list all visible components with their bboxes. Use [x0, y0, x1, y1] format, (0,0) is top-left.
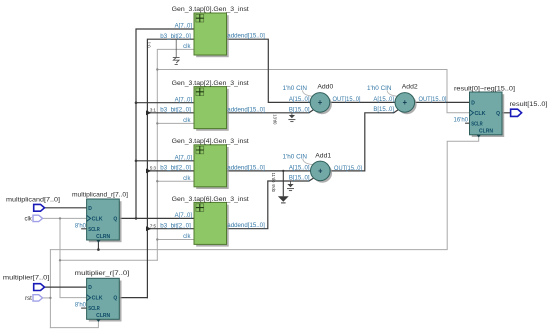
wire rst to multiplier_r CLRN: [50, 322, 98, 328]
svg-text:A[15..0]: A[15..0]: [289, 97, 310, 103]
wire clk to tap4: [157, 180, 194, 182]
wire clk to tap2: [157, 122, 194, 124]
wire rst vertical: [49, 250, 51, 328]
block Gen_3.tap[2].Gen_3_inst: [194, 87, 229, 131]
svg-text:SCLR: SCLR: [471, 121, 483, 127]
svg-text:result[0]~reg[15..0]: result[0]~reg[15..0]: [454, 85, 515, 92]
svg-text:D: D: [471, 101, 475, 107]
svg-text:multiplier_r[7..0]: multiplier_r[7..0]: [75, 270, 130, 277]
wire b3 to tap4: [147, 170, 194, 172]
node clk tap6 branch: [156, 238, 158, 240]
svg-text:CLRN: CLRN: [96, 313, 110, 319]
node Add1 A ground junction: [282, 170, 284, 172]
svg-text:Gen_3.tap[0].Gen_3_inst: Gen_3.tap[0].Gen_3_inst: [172, 6, 249, 13]
svg-text:1'h0 CIN: 1'h0 CIN: [283, 154, 308, 160]
wire CIN elbow Add1: [303, 159, 314, 165]
wire multiplicand_r Q / A bus to tap6 A: [119, 217, 194, 219]
wire multiplicand port to D: [45, 207, 87, 209]
svg-text:Add0: Add0: [317, 84, 333, 91]
port result[15..0]: [511, 109, 522, 116]
wire rst port stub: [43, 297, 51, 299]
svg-text:clk: clk: [183, 176, 191, 182]
node clk port branch: [59, 217, 61, 219]
wire rst to multiplicand_r CLRN: [97, 242, 99, 250]
svg-text:A[7..0]: A[7..0]: [175, 24, 193, 30]
wire b3 to tap6: [147, 228, 194, 230]
port rst: [33, 295, 43, 301]
svg-text:b3_bit[2..0]: b3_bit[2..0]: [160, 166, 191, 172]
register multiplicand_r[7..0]: [87, 199, 122, 243]
svg-text:A[7..0]: A[7..0]: [175, 155, 193, 161]
svg-text:addend[15..0]: addend[15..0]: [227, 107, 265, 113]
svg-text:clk: clk: [183, 44, 191, 50]
wire multiplier_r Q to b3 bus: [119, 297, 147, 299]
svg-text:OUT[15..0]: OUT[15..0]: [334, 166, 362, 172]
labels Add0: [283, 86, 361, 114]
svg-text:11'd0: 11'd0: [271, 173, 276, 183]
svg-text:8'h0: 8'h0: [75, 303, 87, 309]
wire Add0 OUT to Add2 A: [330, 101, 395, 103]
svg-text:SCLR: SCLR: [88, 306, 100, 312]
svg-text:8'h0: 8'h0: [75, 223, 87, 229]
block Gen_3.tap[0].Gen_3_inst: [194, 13, 229, 57]
wire CIN elbow Add2: [387, 91, 398, 97]
wire clk port to multiplicand_r CLK: [43, 217, 87, 219]
ground below tap0 b3_bit: [173, 39, 180, 64]
block Gen_3.tap[4].Gen_3_inst: [194, 145, 229, 189]
svg-text:A[7..0]: A[7..0]: [175, 213, 193, 219]
ripper b3 tap6: [146, 226, 151, 231]
svg-text:Q: Q: [496, 111, 500, 117]
svg-text:5:3: 5:3: [150, 166, 157, 171]
svg-text:7:5: 7:5: [150, 223, 157, 228]
wire Add1 OUT to Add2 B: [330, 110, 398, 171]
svg-text:b3_bit[2..0]: b3_bit[2..0]: [160, 34, 191, 40]
svg-text:addend[15..0]: addend[15..0]: [227, 223, 265, 229]
svg-text:1:0: 1:0: [147, 42, 152, 48]
node clk tap4 branch: [156, 180, 158, 182]
labels Add1: [283, 154, 363, 181]
node A bus tap6: [135, 217, 138, 220]
svg-text:CLK: CLK: [475, 111, 486, 117]
node rst clrn junction: [97, 248, 100, 251]
wire multiplier port to D: [45, 286, 87, 288]
ground on Add1 A wire (large): [278, 171, 289, 203]
svg-text:result[15..0]: result[15..0]: [510, 102, 548, 108]
node A bus tap2: [135, 101, 138, 104]
svg-text:b3_bit[2..0]: b3_bit[2..0]: [160, 108, 191, 114]
register multiplier_r[7..0]: [87, 278, 122, 322]
svg-text:16'h0: 16'h0: [454, 117, 469, 123]
svg-text:CLK: CLK: [92, 296, 103, 302]
op Add0: [310, 93, 332, 115]
wire result reg Q to output port: [502, 112, 511, 114]
svg-text:addend[15..0]: addend[15..0]: [227, 165, 265, 171]
svg-text:OUT[15..0]: OUT[15..0]: [333, 97, 361, 103]
wire rst to result reg CLRN: [50, 137, 478, 250]
wire tap6 addend to Add1 B: [227, 178, 314, 229]
svg-text:1'h0 CIN: 1'h0 CIN: [283, 86, 308, 92]
wire CIN elbow Add0: [303, 91, 314, 97]
ground on Add1 B wire: [287, 181, 294, 191]
svg-text:multiplicand_r[7..0]: multiplicand_r[7..0]: [72, 192, 128, 199]
wire tap4 addend to Add1 A: [227, 170, 311, 172]
svg-text:CLK: CLK: [92, 216, 103, 222]
pins tap4: [160, 155, 265, 181]
svg-text:Gen_3.tap[4].Gen_3_inst: Gen_3.tap[4].Gen_3_inst: [172, 138, 249, 145]
svg-text:A[15..0]: A[15..0]: [289, 165, 310, 171]
op Add1: [311, 161, 333, 183]
svg-text:A[15..0]: A[15..0]: [373, 97, 394, 103]
svg-text:Gen_3.tap[6].Gen_3_inst: Gen_3.tap[6].Gen_3_inst: [172, 196, 249, 203]
svg-text:Add1: Add1: [315, 152, 331, 159]
pins tap2: [160, 97, 265, 124]
labels Add2: [367, 86, 447, 113]
svg-text:multiplier[7..0]: multiplier[7..0]: [3, 275, 50, 281]
svg-text:D: D: [88, 206, 92, 212]
node A bus tap4: [135, 160, 138, 163]
svg-text:Gen_3.tap[2].Gen_3_inst: Gen_3.tap[2].Gen_3_inst: [172, 80, 249, 87]
svg-text:3:1: 3:1: [150, 108, 157, 113]
port multiplier[7..0]: [34, 284, 45, 291]
wire clk to tap6: [157, 239, 194, 241]
svg-text:b3_bit[2..0]: b3_bit[2..0]: [160, 223, 191, 229]
wire b3 bus vertical: [147, 39, 194, 297]
svg-text:B[15..0]: B[15..0]: [289, 176, 310, 182]
ripper b3 tap2: [146, 110, 151, 115]
wire A bus vertical: [136, 29, 194, 218]
wire clk vertical bus: [157, 49, 194, 260]
block Gen_3.tap[6].Gen_3_inst: [194, 202, 229, 246]
wire tap2 addend to Add0 B: [227, 110, 314, 113]
svg-text:CLRN: CLRN: [479, 129, 493, 135]
svg-text:addend[15..0]: addend[15..0]: [227, 34, 265, 40]
svg-text:clk: clk: [183, 234, 191, 240]
node rst port junction: [49, 297, 51, 299]
wire SCLR stub result reg: [466, 122, 470, 124]
svg-text:13'd0: 13'd0: [272, 114, 277, 125]
wire clk to result reg CLK: [157, 70, 469, 113]
svg-text:Q: Q: [113, 216, 117, 222]
svg-text:multiplicand[7..0]: multiplicand[7..0]: [6, 198, 60, 204]
wire clk feed to tap column: [60, 259, 157, 261]
port clk: [33, 215, 43, 221]
wire SCLR stub multiplicand_r: [82, 228, 87, 230]
svg-text:B[15..0]: B[15..0]: [289, 107, 310, 113]
wire clk vertical branch: [60, 218, 87, 297]
svg-text:OUT[15..0]: OUT[15..0]: [419, 97, 447, 103]
svg-text:Q: Q: [113, 296, 117, 302]
pins tap6: [160, 213, 265, 240]
wire SCLR stub multiplier_r: [82, 307, 87, 309]
wire A to tap2: [136, 102, 194, 104]
svg-text:CLRN: CLRN: [96, 234, 110, 240]
ripper b3 tap4: [146, 169, 151, 174]
svg-text:Add2: Add2: [402, 84, 418, 91]
svg-text:clk: clk: [183, 118, 191, 124]
svg-text:A[7..0]: A[7..0]: [175, 97, 193, 103]
wire b3 to tap2: [147, 112, 194, 114]
ground on Add0 B wire: [288, 113, 295, 122]
register result[0]~reg[15..0]: [470, 92, 505, 137]
svg-text:rst: rst: [25, 296, 32, 302]
pins tap0: [160, 24, 265, 50]
node clk tap2 branch: [156, 122, 158, 124]
wire Add2 OUT to result reg D: [415, 101, 470, 103]
node clk result branch: [156, 68, 158, 70]
svg-text:B[15..0]: B[15..0]: [373, 107, 394, 113]
svg-text:1'h0 CIN: 1'h0 CIN: [367, 86, 392, 92]
wire tap0 addend to Add0 A: [227, 39, 311, 102]
port multiplicand[7..0]: [34, 204, 45, 211]
svg-text:clk: clk: [24, 217, 32, 223]
op Add2: [395, 93, 417, 115]
svg-text:D: D: [88, 285, 92, 291]
svg-text:SCLR: SCLR: [88, 227, 100, 233]
node clk feed branch: [59, 259, 61, 261]
wire A to tap4: [136, 160, 194, 162]
svg-text:9'd0: 9'd0: [271, 184, 276, 192]
